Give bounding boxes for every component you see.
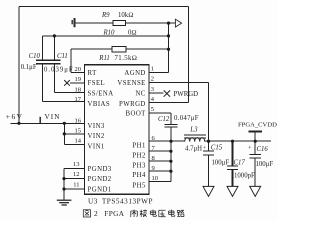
wire right frame vertical to pin4 xyxy=(188,6,190,102)
svg-text:PGND2: PGND2 xyxy=(88,176,112,183)
svg-text:FPGA_CVDD: FPGA_CVDD xyxy=(238,121,277,128)
node VIN2 junction xyxy=(63,132,66,135)
svg-text:4.7μH: 4.7μH xyxy=(185,145,202,152)
node output C16 FPGA_CVDD junction xyxy=(254,140,257,143)
svg-text:18: 18 xyxy=(75,86,82,93)
svg-text:PH2: PH2 xyxy=(132,153,146,160)
node C11 top junction xyxy=(53,34,56,37)
svg-text:C17: C17 xyxy=(234,159,246,166)
wire C11 riser bottom to pin18 xyxy=(54,64,84,93)
wire top frame horizontal xyxy=(19,5,189,7)
svg-text:C16: C16 xyxy=(257,146,269,153)
svg-text:AGND: AGND xyxy=(124,70,145,77)
wire pin13 stub xyxy=(64,168,84,170)
wire R10 net xyxy=(42,35,168,37)
capacitor C15 xyxy=(203,151,214,155)
svg-text:71.5kΩ: 71.5kΩ xyxy=(115,55,138,62)
wire pin1 AGND stub xyxy=(149,71,169,73)
svg-text:U3 TPS54313PWP: U3 TPS54313PWP xyxy=(88,197,153,205)
wire left frame vertical xyxy=(18,6,20,123)
svg-text:+6V: +6V xyxy=(6,112,24,121)
wire C16 riser xyxy=(254,141,256,187)
svg-text:20: 20 xyxy=(75,66,82,73)
wire R11 net left segment xyxy=(71,48,169,50)
svg-text:17: 17 xyxy=(75,96,82,103)
ground triangle under C15 xyxy=(203,186,214,196)
svg-text:100μF: 100μF xyxy=(212,159,230,166)
svg-text:VIN2: VIN2 xyxy=(88,133,105,140)
port arrow input left of R9 xyxy=(72,18,76,27)
inductor L3 xyxy=(185,138,205,142)
wire pin3 NC stub xyxy=(149,92,164,94)
node PGND1 junction xyxy=(62,187,65,190)
svg-text:PH5: PH5 xyxy=(132,182,146,189)
port arrow right of R9 (open) xyxy=(175,19,181,27)
svg-text:SS/ENA: SS/ENA xyxy=(88,90,114,97)
wire output rail xyxy=(205,140,272,142)
op-amp U3 chip body TPS54313PWP xyxy=(84,65,149,195)
node R9 AGND bus junction xyxy=(167,22,170,25)
ground triangle under C16 xyxy=(250,186,261,196)
wire pin6 PH line xyxy=(149,140,185,142)
wire C17 riser xyxy=(232,141,234,187)
capacitor C12 xyxy=(164,124,177,127)
caption glyph 压 xyxy=(159,210,166,217)
wire pin12 stub xyxy=(64,178,84,180)
wire R9 net xyxy=(75,22,175,24)
wire FPGA_CVDD port drop xyxy=(254,132,256,142)
svg-text:2: 2 xyxy=(151,76,154,83)
wire C11 riser top xyxy=(53,36,55,60)
wire pin19 stub xyxy=(70,82,85,84)
svg-text:BOOT: BOOT xyxy=(125,110,146,117)
svg-text:C11: C11 xyxy=(57,53,68,60)
svg-text:16: 16 xyxy=(75,118,82,125)
caption glyph 图 xyxy=(83,210,90,217)
caption glyph 内 xyxy=(131,210,138,217)
node PH3 junction xyxy=(169,160,172,163)
wire C10 riser bottom to pin17 xyxy=(42,64,84,102)
wire pin11 stub xyxy=(64,188,84,190)
wire VIN bus vertical xyxy=(63,123,65,144)
caption glyph 核 xyxy=(140,210,147,217)
resistor R9 xyxy=(113,20,126,25)
svg-text:VIN: VIN xyxy=(45,113,61,121)
wire pin4 PWRGD stub xyxy=(149,102,189,104)
wire pin14 stub xyxy=(64,143,84,145)
svg-text:8: 8 xyxy=(152,155,155,162)
node PH4 junction xyxy=(169,170,172,173)
svg-text:3: 3 xyxy=(151,86,154,93)
svg-text:RT: RT xyxy=(88,70,98,77)
svg-text:11: 11 xyxy=(73,181,79,188)
svg-text:C10: C10 xyxy=(29,53,41,60)
svg-text:L3: L3 xyxy=(189,127,198,134)
no-connect X on pin3 xyxy=(164,90,170,96)
svg-text:PWRGD: PWRGD xyxy=(119,101,146,108)
wire pin7 stub xyxy=(149,150,171,152)
wire pin8 stub xyxy=(149,160,171,162)
svg-text:13: 13 xyxy=(73,161,80,168)
svg-text:VBIAS: VBIAS xyxy=(88,101,111,108)
caption glyph 电 (1st) xyxy=(150,210,156,217)
svg-text:15: 15 xyxy=(75,128,82,135)
node output C17 junction xyxy=(231,140,234,143)
node output C15 junction xyxy=(207,140,210,143)
svg-text:PH1: PH1 xyxy=(132,142,145,149)
wire AGND bus vertical xyxy=(168,23,170,72)
svg-text:100μF: 100μF xyxy=(256,161,274,168)
capacitor C10 xyxy=(36,60,49,64)
svg-text:10: 10 xyxy=(152,175,159,182)
wire C15 riser xyxy=(208,141,210,187)
svg-text:FSEL: FSEL xyxy=(88,80,106,87)
svg-text:PGND3: PGND3 xyxy=(88,166,112,173)
svg-text:C15: C15 xyxy=(211,144,223,151)
svg-text:1000pF: 1000pF xyxy=(234,172,255,179)
no-connect X on pin19 xyxy=(64,80,70,86)
svg-text:1: 1 xyxy=(151,65,154,72)
ground triangle under C17 xyxy=(227,186,238,196)
wire C12 riser bottom xyxy=(170,127,172,141)
wire pin15 stub xyxy=(64,133,84,135)
svg-text:14: 14 xyxy=(75,138,82,145)
svg-text:PH3: PH3 xyxy=(132,162,146,169)
caption glyph 电 (2nd) xyxy=(169,210,175,217)
svg-text:NC: NC xyxy=(135,90,145,97)
node VIN frame junction xyxy=(17,122,20,125)
node R11 AGND bus junction xyxy=(167,48,170,51)
svg-text:PWRGD: PWRGD xyxy=(174,91,199,98)
svg-text:VIN1: VIN1 xyxy=(88,143,105,150)
svg-text:9: 9 xyxy=(152,165,155,172)
capacitor C11 xyxy=(48,60,61,64)
svg-text:R11: R11 xyxy=(98,55,109,62)
svg-text:+: + xyxy=(248,145,252,151)
caption figure title: 图 2 FPGA 内核电压电路 (CJK drawn as strokes) xyxy=(83,210,184,217)
wire RT riser to pin20 xyxy=(71,49,85,72)
svg-text:5: 5 xyxy=(151,106,154,113)
caption glyph 路 xyxy=(177,210,184,216)
wire PGND bus vertical xyxy=(63,169,65,200)
svg-text:0.039μF: 0.039μF xyxy=(44,67,74,74)
node PGND2 junction xyxy=(62,177,65,180)
svg-text:PH4: PH4 xyxy=(132,172,146,179)
svg-text:0.1μF: 0.1μF xyxy=(21,64,37,71)
capacitor C16 xyxy=(250,154,261,158)
capacitor C17 xyxy=(227,166,238,170)
wire pin5 BOOT stub xyxy=(149,113,171,124)
wire C10 riser top xyxy=(41,36,43,60)
svg-text:0.047μF: 0.047μF xyxy=(174,115,199,122)
svg-text:VSENSE: VSENSE xyxy=(117,80,145,87)
wire pin9 stub xyxy=(149,170,171,172)
svg-text:0Ω: 0Ω xyxy=(128,30,137,37)
resistor R11 xyxy=(112,46,126,52)
svg-text:4: 4 xyxy=(151,96,155,103)
wire +6V VIN line xyxy=(11,122,85,124)
svg-text:19: 19 xyxy=(75,76,82,83)
wire pin2 VSENSE feedback xyxy=(149,82,209,141)
svg-text:10kΩ: 10kΩ xyxy=(118,12,133,19)
svg-text:R9: R9 xyxy=(101,12,110,19)
ground earth symbol under PGND xyxy=(57,200,72,205)
wire PH bus vertical xyxy=(170,141,172,181)
svg-text:12: 12 xyxy=(73,171,80,178)
svg-text:FPGA: FPGA xyxy=(104,209,124,218)
wire pin10 stub xyxy=(149,180,171,182)
node PH C12 junction xyxy=(169,140,172,143)
svg-text:PGND1: PGND1 xyxy=(88,186,112,193)
svg-text:VIN3: VIN3 xyxy=(88,123,105,130)
svg-text:+: + xyxy=(203,145,207,151)
node PH2 junction xyxy=(169,150,172,153)
svg-text:C12: C12 xyxy=(158,116,170,123)
node R10 AGND bus junction xyxy=(167,34,170,37)
+6V port tick xyxy=(39,117,41,124)
svg-text:2: 2 xyxy=(94,209,98,218)
node VIN bus top junction xyxy=(63,122,66,125)
svg-text:R10: R10 xyxy=(103,30,116,37)
